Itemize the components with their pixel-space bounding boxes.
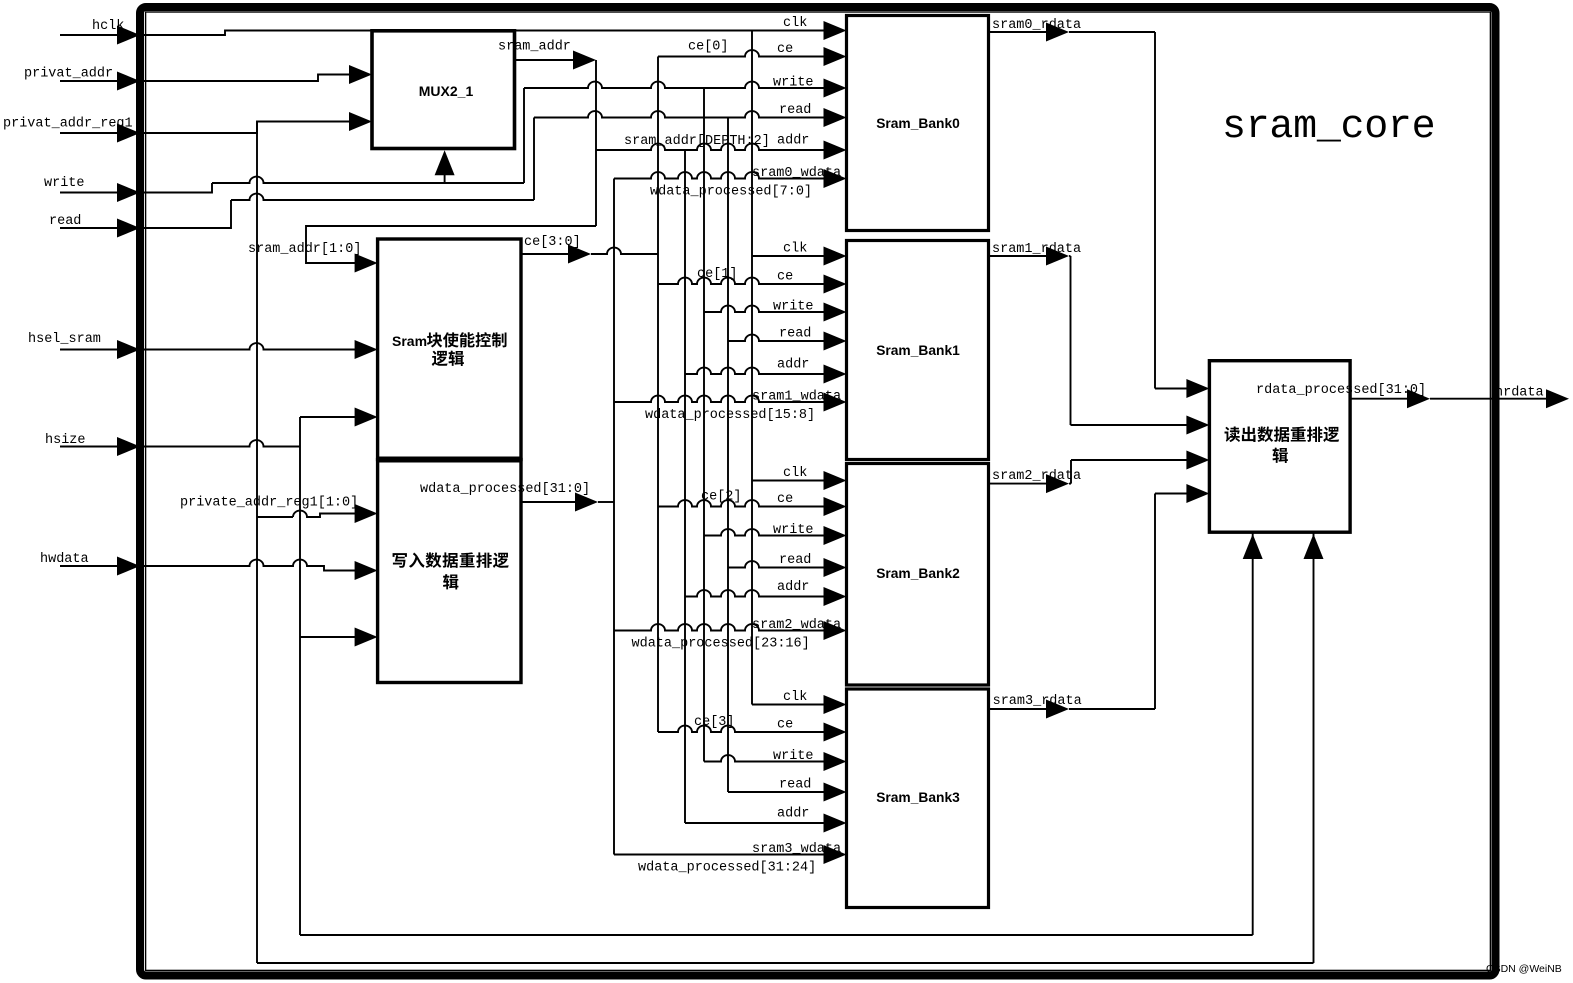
arrowhead Sram_Bank1 addr bbox=[824, 365, 847, 384]
svg-text:ce[1]: ce[1] bbox=[697, 267, 738, 282]
wire addr branch to Sram_Bank3 bbox=[685, 822, 824, 824]
arrowhead Sram_Bank2 clk bbox=[824, 471, 847, 490]
wire rdata_processed[31:0] from read-rearrange block bbox=[1350, 398, 1407, 400]
wire addr branch to Sram_Bank2 bbox=[685, 590, 824, 596]
wire hrdata through border bbox=[1430, 398, 1546, 400]
svg-text:Sram_Bank0: Sram_Bank0 bbox=[876, 116, 960, 131]
svg-text:write: write bbox=[773, 523, 814, 538]
arrowhead Sram_Bank0 addr bbox=[824, 141, 847, 160]
svg-text:private_addr_reg1[1:0]: private_addr_reg1[1:0] bbox=[180, 496, 358, 511]
arrowhead MUX input B bbox=[349, 112, 372, 131]
arrowhead Sram_Bank1 write bbox=[824, 303, 847, 322]
wire hclk: border to MUX top edge then to clk bus and Sram_Bank0 clk bbox=[140, 31, 824, 36]
wire clk branch to Sram_Bank3 bbox=[752, 704, 824, 706]
arrowhead Sram_Bank3 wdata bbox=[824, 845, 847, 864]
wire wdata_processed[31:0] from write-data block output bbox=[521, 501, 575, 503]
svg-text:sram_core: sram_core bbox=[1222, 105, 1435, 150]
wire sram0_rdata from Sram_Bank0 to read-rearrange input 1 bbox=[989, 32, 1188, 389]
svg-text:read: read bbox=[779, 103, 811, 118]
wire ce[3] branch to Sram_Bank3 bbox=[658, 726, 824, 732]
wire ce[2] branch to Sram_Bank2 bbox=[658, 500, 824, 506]
svg-text:privat_addr_reg1: privat_addr_reg1 bbox=[3, 117, 133, 132]
wire sram_addr[DEPTH:2] to Sram_Bank0 addr bbox=[596, 144, 824, 150]
wire private_addr_reg1[1:0] branch into write-data block bbox=[257, 511, 355, 517]
arrowhead Sram_Bank3 addr bbox=[824, 814, 847, 833]
svg-text:sram3_rdata: sram3_rdata bbox=[993, 694, 1082, 709]
svg-text:addr: addr bbox=[777, 580, 809, 595]
arrowhead Sram_Bank1 read bbox=[824, 332, 847, 351]
arrowhead write-data block input (hsize lower) bbox=[355, 628, 378, 647]
wire read: border to Sram read bus bbox=[140, 111, 824, 228]
arrowhead read-rearrange input 1 bbox=[1186, 379, 1209, 398]
svg-text:sram1_rdata: sram1_rdata bbox=[992, 242, 1081, 257]
svg-text:clk: clk bbox=[783, 466, 807, 481]
svg-text:sram_addr[DEPTH:2]: sram_addr[DEPTH:2] bbox=[624, 134, 770, 149]
arrowhead sram2_rdata (mid-wire) bbox=[1046, 474, 1069, 493]
input port privat_addr_reg1 (stub + arrowhead into border + label) bbox=[3, 117, 140, 143]
arrowhead Sram_Bank1 ce bbox=[824, 275, 847, 294]
block Sram enable control logic (Sram块使能控制逻辑) bbox=[378, 239, 521, 460]
block Sram_Bank3 bbox=[847, 689, 989, 908]
svg-text:ce[2]: ce[2] bbox=[701, 490, 742, 505]
arrowhead Sram_Bank2 addr bbox=[824, 587, 847, 606]
arrowhead enable-control input (hsize upper) bbox=[355, 408, 378, 427]
wire read branch to Sram_Bank3 bbox=[728, 791, 824, 793]
svg-text:MUX2_1: MUX2_1 bbox=[419, 83, 474, 99]
arrowhead ce[3:0] (mid-wire) bbox=[568, 245, 591, 264]
arrowhead sram1_rdata (mid-wire) bbox=[1046, 247, 1069, 266]
wire clk bus vertical (hclk distribution) bbox=[751, 31, 753, 705]
wire write bus vertical bbox=[703, 88, 705, 762]
block Sram_Bank2 bbox=[847, 464, 989, 686]
svg-text:write: write bbox=[773, 749, 814, 764]
block read data rearrange logic (读出数据重排逻辑) bbox=[1209, 361, 1350, 533]
arrowhead into read-rearrange block bottom (right) bbox=[1304, 534, 1324, 559]
arrowhead wdata_processed[31:0] (mid-wire) bbox=[575, 493, 598, 512]
svg-text:write: write bbox=[773, 76, 814, 91]
arrowhead Sram_Bank0 ce bbox=[824, 47, 847, 66]
svg-text:Sram_Bank3: Sram_Bank3 bbox=[876, 790, 960, 805]
svg-text:wdata_processed[23:16]: wdata_processed[23:16] bbox=[632, 637, 810, 652]
svg-text:Sram_Bank2: Sram_Bank2 bbox=[876, 566, 960, 581]
svg-text:read: read bbox=[779, 327, 811, 342]
arrowhead rdata_processed (mid-wire) bbox=[1407, 389, 1430, 408]
arrowhead Sram_Bank3 write bbox=[824, 752, 847, 771]
svg-text:wdata_processed[31:24]: wdata_processed[31:24] bbox=[638, 861, 816, 876]
arrowhead sram_addr (mid-wire) bbox=[573, 51, 596, 70]
wire write: border to MUX select and Sram write bus bbox=[140, 82, 824, 193]
arrowhead MUX input A bbox=[349, 65, 372, 84]
arrowhead MUX select (up) bbox=[435, 150, 455, 175]
arrowhead Sram_Bank0 wdata bbox=[824, 169, 847, 188]
svg-text:ce: ce bbox=[777, 718, 793, 733]
wire ce bus vertical bbox=[657, 57, 659, 733]
arrowhead Sram_Bank2 ce bbox=[824, 497, 847, 516]
arrowhead enable-control input sram_addr[1:0] bbox=[355, 254, 378, 273]
svg-text:write: write bbox=[44, 176, 85, 191]
wire ce[3:0] continuation to ce bus bbox=[591, 248, 658, 254]
arrowhead Sram_Bank3 read bbox=[824, 783, 847, 802]
block write data rearrange logic (写入数据重排逻辑) bbox=[378, 460, 521, 683]
svg-text:clk: clk bbox=[783, 242, 807, 257]
svg-text:sram0_rdata: sram0_rdata bbox=[992, 18, 1081, 33]
arrowhead Sram_Bank2 wdata bbox=[824, 621, 847, 640]
input port write (stub + arrowhead into border + label) bbox=[44, 176, 140, 202]
wire write branch to Sram_Bank1 bbox=[704, 306, 824, 312]
shared edge between enable-control block and write-data block bbox=[378, 457, 521, 463]
arrowhead into read-rearrange block bottom (left) bbox=[1243, 534, 1263, 559]
arrowhead Sram_Bank3 clk bbox=[824, 695, 847, 714]
wire sram_addr return route to enable-control block input sram_addr[1:0] bbox=[306, 226, 596, 263]
wire addr branch to Sram_Bank1 bbox=[685, 368, 824, 374]
wire privat_addr to MUX input A bbox=[140, 75, 351, 82]
svg-text:ce[0]: ce[0] bbox=[688, 40, 729, 55]
wire wdata_processed[31:0] continuation bbox=[598, 501, 614, 503]
svg-text:hsel_sram: hsel_sram bbox=[28, 332, 101, 347]
arrowhead read-rearrange input 4 bbox=[1186, 484, 1209, 503]
svg-text:CSDN @WeiNB: CSDN @WeiNB bbox=[1486, 963, 1562, 975]
wire ce[3:0] from enable-control block output bbox=[521, 253, 573, 255]
svg-text:read: read bbox=[779, 778, 811, 793]
svg-text:rdata_processed[31:0]: rdata_processed[31:0] bbox=[1256, 383, 1426, 398]
wire hwdata to write-data block bbox=[140, 560, 355, 571]
wire read bus vertical bbox=[727, 118, 729, 793]
arrowhead Sram_Bank1 clk bbox=[824, 247, 847, 266]
arrowhead Sram_Bank0 write bbox=[824, 79, 847, 98]
svg-text:clk: clk bbox=[783, 690, 807, 705]
svg-text:sram2_rdata: sram2_rdata bbox=[992, 469, 1081, 484]
svg-text:privat_addr: privat_addr bbox=[24, 67, 113, 82]
svg-text:ce: ce bbox=[777, 270, 793, 285]
arrowhead sram0_rdata (mid-wire) bbox=[1046, 23, 1069, 42]
input port hclk (stub + arrowhead into border + label) bbox=[60, 19, 140, 45]
wire sram1_rdata from Sram_Bank1 to read-rearrange input 2 bbox=[989, 256, 1188, 425]
arrowhead enable-control input hsel_sram bbox=[355, 340, 378, 359]
wire hsize: border to enable-control / write-data blocks and bottom route bbox=[140, 417, 1253, 935]
svg-text:addr: addr bbox=[777, 807, 809, 822]
svg-text:Sram_Bank1: Sram_Bank1 bbox=[876, 343, 960, 358]
svg-text:addr: addr bbox=[777, 358, 809, 373]
wire wdata bus vertical bbox=[613, 179, 615, 855]
wire clk branch to Sram_Bank2 bbox=[752, 480, 824, 482]
svg-text:hsize: hsize bbox=[45, 433, 86, 448]
wire clk branch to Sram_Bank1 bbox=[752, 255, 824, 257]
svg-text:Sram: Sram bbox=[392, 333, 427, 349]
svg-text:sram_addr: sram_addr bbox=[498, 40, 571, 55]
arrowhead Sram_Bank2 read bbox=[824, 558, 847, 577]
wire sram_addr from MUX output bbox=[515, 59, 574, 61]
wire hsel_sram to enable-control block bbox=[140, 343, 355, 349]
svg-text:ce: ce bbox=[777, 492, 793, 507]
arrowhead write-data block input hwdata bbox=[355, 561, 378, 580]
svg-text:wdata_processed[31:0]: wdata_processed[31:0] bbox=[420, 482, 590, 497]
wire read branch to Sram_Bank2 bbox=[728, 561, 824, 567]
wire ce[1] branch to Sram_Bank1 bbox=[658, 278, 824, 284]
svg-text:ce[3]: ce[3] bbox=[694, 715, 735, 730]
wire read branch to Sram_Bank1 bbox=[728, 335, 824, 341]
arrowhead Sram_Bank2 write bbox=[824, 526, 847, 545]
arrowhead Sram_Bank0 read bbox=[824, 108, 847, 127]
svg-text:read: read bbox=[779, 553, 811, 568]
svg-text:wdata_processed[7:0]: wdata_processed[7:0] bbox=[650, 185, 812, 200]
arrowhead read-rearrange input 2 bbox=[1186, 416, 1209, 435]
svg-text:hwdata: hwdata bbox=[40, 552, 89, 567]
arrowhead sram3_rdata (mid-wire) bbox=[1046, 700, 1069, 719]
svg-text:hrdata: hrdata bbox=[1495, 386, 1544, 401]
input port read (stub + arrowhead into border + label) bbox=[49, 214, 140, 238]
wire sram3_rdata from Sram_Bank3 to read-rearrange input 4 bbox=[989, 494, 1188, 710]
wire privat_addr_reg1 to MUX input B bbox=[140, 122, 351, 134]
wire ce[0] branch to Sram_Bank0 bbox=[658, 50, 824, 56]
arrowhead Sram_Bank1 wdata bbox=[824, 393, 847, 412]
arrowhead read-rearrange input 3 bbox=[1186, 451, 1209, 470]
arrowhead Sram_Bank0 clk bbox=[824, 21, 847, 40]
wire sram2_rdata from Sram_Bank2 to read-rearrange input 3 bbox=[989, 460, 1188, 484]
svg-text:clk: clk bbox=[783, 16, 807, 31]
input port hsel_sram (stub + arrowhead into border + label) bbox=[28, 332, 140, 359]
arrowhead hrdata output bbox=[1546, 389, 1569, 408]
wire sram2_wdata branch to Sram_Bank2 bbox=[614, 624, 824, 630]
arrowhead Sram_Bank3 ce bbox=[824, 723, 847, 742]
wire sram1_wdata branch to Sram_Bank1 bbox=[614, 396, 824, 402]
wire MUX select from write line bbox=[444, 172, 446, 184]
wire addr bus vertical bbox=[684, 150, 686, 823]
svg-text:write: write bbox=[773, 300, 814, 315]
block MUX2_1 bbox=[372, 31, 515, 149]
input port privat_addr (stub + arrowhead into border + label) bbox=[24, 67, 140, 91]
wire privat_addr_reg1 bottom route to read-rearrange block bbox=[257, 532, 1314, 963]
block Sram_Bank0 bbox=[847, 16, 989, 231]
wire write branch to Sram_Bank3 bbox=[704, 755, 824, 761]
svg-text:ce[3:0]: ce[3:0] bbox=[524, 235, 581, 250]
wire write branch to Sram_Bank2 bbox=[704, 529, 824, 535]
svg-text:addr: addr bbox=[777, 134, 809, 149]
wire sram3_wdata branch to Sram_Bank3 bbox=[614, 854, 824, 856]
svg-text:hclk: hclk bbox=[92, 19, 124, 34]
wire sram_addr vertical bbox=[595, 60, 597, 226]
svg-text:ce: ce bbox=[777, 42, 793, 57]
arrowhead write-data block input private_addr_reg1[1:0] bbox=[355, 504, 378, 523]
block Sram_Bank1 bbox=[847, 241, 989, 460]
input port hsize (stub + arrowhead into border + label) bbox=[45, 433, 140, 456]
svg-text:read: read bbox=[49, 214, 81, 229]
input port hwdata (stub + arrowhead into border + label) bbox=[40, 552, 140, 576]
svg-text:sram_addr[1:0]: sram_addr[1:0] bbox=[248, 242, 361, 257]
wire sram0_wdata branch to Sram_Bank0 bbox=[614, 172, 824, 178]
svg-text:wdata_processed[15:8]: wdata_processed[15:8] bbox=[645, 408, 815, 423]
wire privat_addr_reg1 vertical down left side bbox=[256, 122, 258, 964]
